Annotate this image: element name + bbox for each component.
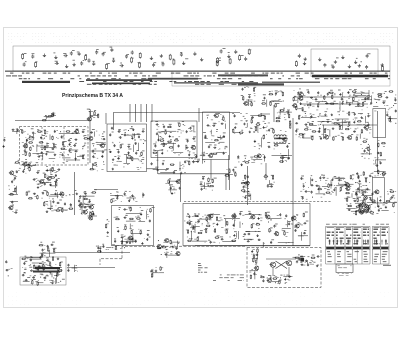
label [383,264,391,267]
wire [89,111,91,163]
capacitor C148 [395,110,397,113]
junction [166,170,167,171]
wire [357,124,363,126]
junction [312,197,313,198]
wire [90,214,92,219]
label [128,154,131,157]
capacitor C205 [221,238,224,240]
label [270,219,272,222]
resistor R220 [41,253,42,258]
capacitor C4 [70,51,73,55]
wire [269,100,282,102]
label [354,88,357,91]
label [158,131,161,134]
label [353,232,361,233]
label [343,96,345,99]
label [114,155,116,158]
capacitor C197 [273,225,275,228]
transistor Q35 [291,216,296,220]
junction [221,138,222,139]
label [116,216,119,219]
capacitor C239 [43,268,45,271]
label [275,90,278,93]
capacitor C152 [356,172,358,175]
junction [245,118,246,119]
resistor R165 [44,202,45,207]
ground [268,145,271,147]
wire [40,252,56,254]
label [141,209,144,212]
ground [363,210,366,212]
resistor R244 [260,276,265,277]
capacitor C183 [84,206,87,208]
junction [89,111,90,112]
label [155,166,158,169]
label [27,276,30,279]
capacitor C131 [357,104,359,107]
label [259,144,261,147]
ground [2,145,4,147]
label [366,206,368,209]
label [113,57,115,60]
capacitor C38 [51,148,54,150]
capacitor C227 [348,209,351,211]
ground [284,278,286,280]
wire [222,240,235,242]
label [373,247,380,249]
label [0,0,1,1]
wire [72,267,78,269]
wire [249,270,258,272]
wire [179,174,181,202]
resistor R173 [208,178,209,183]
label [354,258,357,261]
label [311,174,313,177]
label [115,194,118,197]
label [349,88,352,91]
capacitor C250 [151,269,153,272]
label [258,230,261,233]
label [123,244,126,247]
wire [335,118,349,120]
wire [335,187,337,196]
label [51,205,53,208]
resistor R172 [90,212,91,217]
label [82,128,85,131]
resistor R201 [317,188,322,189]
resistor R104 [389,91,394,92]
capacitor C75 [156,123,159,125]
wire [49,250,51,257]
wire [346,100,348,104]
resistor R126 [361,129,362,134]
resistor R4 [139,52,141,58]
wire [352,98,354,104]
label [327,235,334,236]
label [338,176,340,179]
capacitor C130 [349,103,351,106]
wire [248,99,250,106]
label [169,177,171,180]
label [246,119,248,122]
label [241,54,244,57]
wire [44,115,52,117]
wire [34,265,45,267]
label [390,188,393,191]
capacitor C215 [310,184,313,186]
wire [87,215,97,217]
wire [96,142,103,144]
label [327,238,334,239]
resistor R246 [279,280,280,285]
capacitor C15 [112,59,115,63]
capacitor C122 [315,98,318,100]
wire [322,185,328,187]
capacitor C168 [146,238,148,241]
wire [367,201,376,203]
label [222,136,225,139]
capacitor C125 [367,97,370,99]
wire [358,113,363,115]
resistor R26 [53,143,54,148]
label [278,117,281,120]
label [365,184,367,187]
resistor R209 [371,200,376,201]
capacitor C9 [88,58,91,62]
label [306,126,308,129]
ground [141,242,143,244]
capacitor C114 [242,88,244,91]
label [38,183,41,186]
label [74,189,76,192]
label [89,109,95,117]
wire [169,181,171,186]
label [138,61,141,64]
label [46,257,49,260]
transistor Q30 [244,181,249,185]
label [213,122,216,125]
resistor R100 [275,103,276,108]
label [8,292,389,305]
wire [49,195,59,197]
wire [49,271,62,273]
resistor R59 [163,142,164,147]
ground [131,237,134,239]
label [360,208,362,211]
label [257,121,260,124]
label [112,243,115,246]
capacitor C242 [32,276,35,278]
wire [330,180,332,189]
ground [32,132,34,134]
wire [192,160,199,162]
capacitor C259 [262,279,264,282]
junction [93,145,94,146]
resistor R164 [37,195,38,200]
ground [54,56,57,59]
wire [247,166,249,205]
wire [346,101,352,103]
capacitor C108 [267,185,269,188]
label [190,220,193,223]
wire [353,101,358,103]
resistor R77 [255,127,256,132]
ground [128,199,130,201]
label [319,135,321,138]
label [288,220,291,223]
wire [94,131,96,136]
capacitor C53 [57,169,60,171]
resistor R5 [106,63,108,69]
label [383,100,386,103]
resistor R139 [378,170,379,175]
ground [182,61,185,64]
label [254,126,287,155]
wire [250,194,252,200]
junction [275,282,276,283]
junction [339,114,340,115]
multivibrator box [247,248,321,288]
wire [228,155,230,180]
deflection box [372,177,384,203]
resistor R112 [330,103,335,104]
label [331,64,333,67]
resistor R49 [120,144,121,149]
label [69,147,72,150]
label [394,97,396,100]
label [70,205,72,208]
junction [50,209,51,210]
label [282,229,285,232]
label [52,255,54,258]
wire [297,98,299,104]
capacitor C19 [180,52,183,56]
wire [80,195,95,197]
capacitor C158 [361,211,363,214]
wire [59,133,74,135]
label [305,211,308,214]
wire [46,169,56,171]
capacitor C224 [371,193,373,196]
label [255,125,258,128]
wire [300,103,368,105]
label [0,0,1,1]
capacitor C154 [355,194,358,196]
resistor R141 [363,171,364,176]
resistor R137 [381,143,386,144]
label [13,174,16,177]
transistor Q23 [39,180,44,184]
resistor R202 [326,192,331,193]
resistor R115 [298,115,299,120]
label [8,171,17,213]
capacitor C251 [5,260,7,263]
wire [142,193,144,198]
wire [193,225,200,227]
label [117,226,119,229]
transistor Q13 [256,154,261,158]
label [83,59,85,62]
label [218,136,220,139]
capacitor C40 [75,150,78,152]
label [46,190,48,193]
wire [29,258,41,260]
wire [266,258,296,260]
wire [32,153,44,155]
resistor R87 [241,190,246,191]
label [72,49,75,52]
capacitor C64 [142,130,145,132]
label [130,127,133,130]
capacitor C204 [210,241,212,244]
CRT box [373,109,386,138]
label [53,247,56,250]
label [103,51,106,54]
label [70,141,72,144]
wire [229,175,231,190]
transistor Q20 [347,136,352,140]
capacitor C174 [49,184,52,186]
capacitor C37 [73,145,76,147]
wire [210,130,212,135]
resistor R213 [369,205,370,210]
capacitor C68 [138,135,140,138]
label [263,93,266,96]
wire [246,231,259,233]
label [243,192,250,199]
resistor R18 [37,131,42,132]
label [245,194,247,197]
label [32,52,35,55]
label [41,245,54,256]
wire [8,194,18,196]
wire [236,233,238,238]
capacitor C5 [78,52,81,56]
ground [331,114,333,116]
junction [244,239,245,240]
label [85,203,88,206]
label [327,232,334,233]
wire [310,177,312,185]
label [275,223,278,226]
label [347,260,352,263]
wire [100,258,122,260]
label [49,181,51,184]
label [173,187,175,194]
label [148,78,198,80]
resistor R119 [349,121,350,126]
wire [169,180,180,182]
resistor R176 [244,175,245,180]
label [371,203,373,206]
capacitor C54 [55,174,57,177]
wire [55,252,130,254]
junction [313,264,314,265]
resistor R237 [162,247,167,248]
label [218,112,220,115]
wire [318,185,320,193]
capacitor C202 [294,229,296,232]
label [298,223,301,226]
ground [54,154,57,156]
ground [243,123,245,125]
label [155,160,187,173]
wire [270,275,272,281]
label [347,125,349,128]
capacitor C128 [325,102,328,104]
label [346,235,351,236]
label [234,212,236,215]
label [191,237,193,240]
wire [122,245,245,247]
label [202,175,205,178]
label [0,0,1,1]
wire [225,175,227,190]
capacitor C196 [197,221,200,223]
label [162,137,164,140]
tube socket pins [336,240,342,245]
capacitor C255 [165,253,168,255]
capacitor C59 [92,155,94,158]
label [336,238,344,239]
label [197,158,200,161]
label [366,138,368,141]
label [163,159,165,162]
wire [341,93,343,98]
wire [49,158,56,160]
wire [273,105,275,122]
resistor R56 [160,140,165,141]
ground [30,269,33,271]
wire [302,137,311,139]
transistor Q44 [156,244,161,248]
label [296,128,299,131]
resistor R199 [350,175,351,180]
ground [112,168,114,170]
wire [381,209,388,211]
junction [81,213,82,214]
capacitor C159 [367,208,369,211]
transistor Q45 [175,252,180,256]
footnote box [336,264,353,272]
wire [219,135,221,139]
tube table grid [326,226,389,264]
junction [124,247,125,248]
ground [304,57,307,60]
capacitor C247 [102,245,104,248]
resistor R32 [29,152,30,157]
wire [198,108,200,122]
capacitor C171 [33,178,36,180]
label [5,71,390,72]
label [248,93,251,96]
resistor R41 [15,162,20,163]
label [247,238,250,241]
label [174,82,258,84]
capacitor C188 [247,175,249,178]
capacitor C150 [375,165,378,167]
ground [127,151,129,153]
wire [267,184,273,186]
wire [138,220,145,222]
label [158,247,178,255]
resistor R93 [253,87,254,92]
capacitor C97 [223,152,225,155]
wire [41,127,43,164]
label [80,192,94,214]
capacitor C263 [317,255,320,257]
label [301,258,305,262]
